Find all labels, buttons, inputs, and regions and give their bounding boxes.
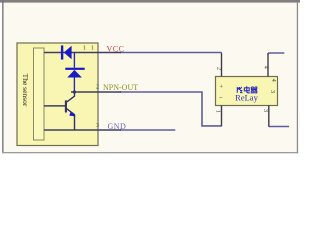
svg-text:1: 1 bbox=[83, 45, 86, 51]
svg-text:NPN-OUT: NPN-OUT bbox=[103, 83, 138, 92]
svg-text:GND: GND bbox=[108, 122, 127, 131]
svg-text:−: − bbox=[219, 94, 223, 102]
svg-text:3: 3 bbox=[96, 123, 99, 129]
svg-text:1: 1 bbox=[91, 45, 94, 51]
svg-text:2: 2 bbox=[96, 85, 99, 91]
svg-text:4: 4 bbox=[270, 79, 276, 82]
svg-text:1: 1 bbox=[215, 110, 221, 113]
svg-text:3: 3 bbox=[262, 109, 268, 112]
svg-text:4: 4 bbox=[263, 66, 269, 69]
svg-text:+: + bbox=[219, 83, 223, 90]
svg-text:ReLay: ReLay bbox=[235, 93, 258, 103]
svg-text:2: 2 bbox=[216, 67, 222, 70]
svg-text:3: 3 bbox=[269, 90, 275, 93]
svg-text:VCC: VCC bbox=[107, 44, 125, 53]
svg-text:The sensor: The sensor bbox=[21, 74, 30, 107]
